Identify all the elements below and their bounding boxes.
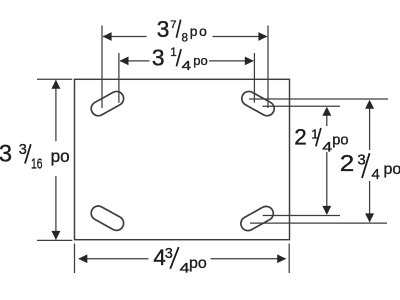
arrowhead 3 3/16 down (51, 231, 60, 240)
label 3 1/4 po (152, 45, 208, 74)
label 2 1/4 po (294, 125, 348, 155)
extension line bottom of dim 3 3/16 (37, 239, 72, 241)
extension line right of dim 3 1/4 (253, 53, 255, 103)
svg-text:4: 4 (372, 166, 380, 183)
dim line 3 7/8 right segment (213, 36, 268, 38)
svg-text:4: 4 (182, 58, 192, 73)
svg-text:po: po (384, 161, 400, 178)
svg-text:3: 3 (165, 246, 173, 262)
slot hole bottom-right (238, 204, 275, 233)
dim line 3 3/16 lower segment (55, 176, 57, 239)
label 4 3/4 po (153, 245, 206, 276)
svg-text:3: 3 (152, 45, 165, 71)
dim line 3 3/16 upper segment (55, 80, 57, 141)
svg-text:7: 7 (170, 19, 176, 31)
svg-text:16: 16 (31, 157, 43, 173)
extension line top of dim 3 3/16 (37, 78, 72, 80)
svg-text:po: po (193, 53, 207, 68)
dim line 3 7/8 left segment (103, 36, 147, 38)
svg-text:3: 3 (157, 16, 170, 42)
arrowhead 3 1/4 left (120, 57, 129, 66)
dim line 3 1/4 left segment (120, 60, 150, 62)
reference line lower from top-right slot (dim 2 1/4 top) (262, 105, 340, 107)
dim line 2 1/4 lower segment (326, 152, 328, 214)
label 3 3/16 po (0, 141, 70, 173)
label 2 3/4 po (340, 150, 400, 183)
arrowhead 3 1/4 right (245, 57, 254, 66)
svg-text:3: 3 (0, 141, 12, 168)
slot hole top-left (89, 89, 126, 118)
svg-text:po: po (190, 24, 209, 39)
extension line left of dim 4 3/4 (74, 244, 76, 274)
dim line 3 1/4 right segment (209, 60, 253, 62)
dim line 2 3/4 upper segment (369, 105, 371, 150)
slot hole top-right (239, 89, 276, 118)
reference line lower from bottom-right slot (dim 2 3/4 bottom) (250, 222, 387, 224)
reference line upper from top-right slot (dim 2 3/4 top) (249, 98, 388, 100)
svg-text:2: 2 (340, 150, 355, 176)
label 3 7/8 po (157, 16, 209, 45)
dim line 2 3/4 lower segment (369, 181, 371, 222)
dim line 4 3/4 left segment (79, 258, 149, 260)
arrowhead 4 3/4 right (277, 254, 286, 263)
extension line left of dim 3 7/8 (101, 26, 103, 109)
arrowhead 2 3/4 up (365, 100, 374, 109)
extension line right of dim 3 7/8 (267, 26, 269, 109)
arrowhead 2 1/4 down (322, 206, 331, 215)
svg-text:8: 8 (182, 32, 188, 45)
svg-text:po: po (332, 133, 348, 149)
dim line 4 3/4 right segment (211, 258, 286, 260)
arrowhead 3 7/8 right (258, 32, 267, 41)
svg-text:po: po (189, 255, 207, 272)
svg-text:2: 2 (294, 125, 307, 150)
extension line right of dim 4 3/4 (288, 244, 290, 274)
arrowhead 2 3/4 down (365, 213, 374, 222)
dim line 2 1/4 upper segment (326, 112, 328, 126)
svg-text:po: po (51, 146, 70, 166)
arrowhead 3 7/8 left (103, 32, 112, 41)
svg-text:4: 4 (322, 139, 332, 155)
arrowhead 3 3/16 up (51, 80, 60, 89)
arrowhead 2 1/4 up (322, 107, 331, 116)
reference line upper from bottom-right slot (dim 2 1/4 bottom) (263, 215, 340, 217)
svg-text:3: 3 (19, 142, 27, 158)
slot hole bottom-left (89, 204, 126, 233)
svg-text:1: 1 (170, 47, 176, 59)
extension line left of dim 3 1/4 (118, 53, 120, 103)
plate outline (75, 79, 290, 239)
svg-text:3: 3 (357, 151, 365, 168)
arrowhead 4 3/4 left (78, 254, 87, 263)
